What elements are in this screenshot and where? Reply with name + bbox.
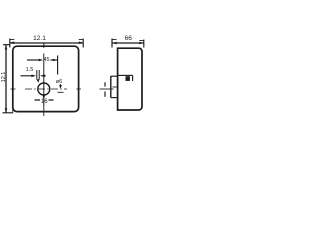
slot width right arrowhead	[40, 75, 45, 78]
svg-text:ø6: ø6	[56, 79, 62, 85]
top dimension line	[10, 42, 84, 44]
bottom center cross vertical	[43, 106, 45, 116]
actuator centerline vertical dash upper	[104, 82, 106, 86]
left dimension line	[5, 45, 7, 113]
side view body outline	[118, 48, 142, 110]
top dimension right extension tick	[82, 39, 84, 48]
actuator centerline vertical dash lower	[104, 92, 106, 97]
side view top dim left arrowhead	[112, 42, 117, 45]
slot bottom arrowhead	[37, 79, 40, 83]
diameter leader vertical dash	[60, 84, 62, 88]
45 dimension right arrowhead	[53, 59, 58, 62]
side view inner step vertical	[132, 75, 134, 81]
centerline tick at left edge	[11, 88, 16, 90]
front view outline	[13, 46, 79, 111]
side view top dim left tick flag	[112, 39, 117, 41]
arrow below circle pointing down	[42, 95, 45, 100]
centerline tick at right edge	[77, 88, 82, 90]
slot width dim right line	[42, 75, 47, 77]
side view bezel bottom tick	[111, 97, 118, 99]
side view top dim left tick	[111, 39, 113, 48]
diameter leader arrowhead down	[59, 85, 62, 89]
vertical centerline through circle	[43, 54, 45, 107]
slot left line	[36, 70, 38, 80]
16 dimension line below circle	[35, 99, 54, 101]
top dimension right arrowhead	[79, 41, 84, 44]
actuator tick	[113, 86, 118, 88]
center hole circle	[38, 83, 50, 95]
left dimension top tick	[3, 44, 10, 46]
side view top dim right arrowhead	[139, 42, 144, 45]
svg-text:66: 66	[125, 35, 133, 42]
side view inner step line	[118, 74, 133, 76]
actuator centerline horizontal	[100, 88, 114, 90]
inner 45 dimension left segment	[27, 59, 40, 61]
small dash below centerline	[58, 91, 64, 93]
slot width dim left line	[21, 75, 34, 77]
left dimension bottom arrowhead	[5, 108, 8, 113]
left dimension bottom tick	[3, 112, 13, 114]
top dimension left extension tick	[9, 39, 11, 48]
45 right extension line	[57, 56, 59, 75]
svg-text:45: 45	[43, 57, 49, 63]
side view bezel left edge	[110, 76, 112, 98]
top dimension right tick flag	[79, 39, 84, 41]
left dimension top arrowhead	[5, 45, 8, 50]
side view top dimension line	[112, 42, 144, 44]
svg-text:1.5: 1.5	[26, 67, 34, 73]
top dimension left arrowhead	[10, 41, 15, 44]
45 dimension right segment	[51, 59, 58, 61]
horizontal centerline (dashed)	[25, 88, 67, 90]
slot right line	[38, 70, 40, 80]
side view black square detail	[126, 76, 130, 81]
svg-text:12.1: 12.1	[1, 72, 7, 83]
slot width left arrowhead	[31, 75, 36, 78]
svg-text:12.1: 12.1	[33, 35, 46, 42]
side view top dim right tick flag	[139, 40, 144, 42]
svg-text:16: 16	[41, 99, 48, 105]
top dimension left tick flag	[10, 39, 15, 41]
left dimension bottom tick flag	[12, 109, 14, 113]
side view bezel top tick	[111, 75, 118, 77]
45 dimension arrowhead at centerline	[39, 59, 44, 62]
side view top dim right tick	[143, 40, 145, 48]
vertical centerline stub at top dimension	[43, 44, 45, 48]
